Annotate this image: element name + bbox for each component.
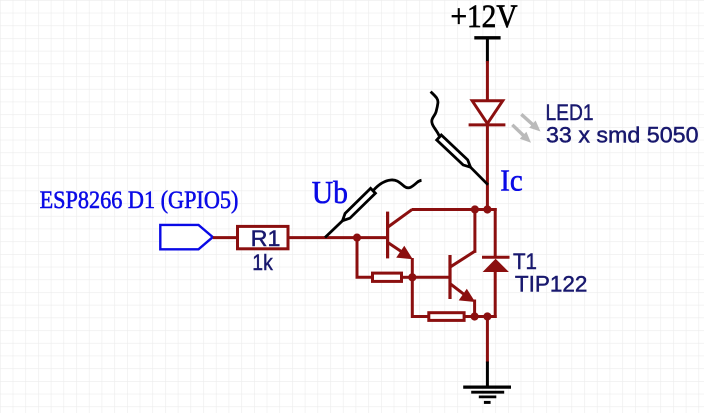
resistor Ra (internal) [373,273,402,281]
transistor Q2 (Darlington output) [450,251,475,302]
wire Q1 base branch down to Ra [357,238,372,278]
transistor Q1 (Darlington input) [388,210,413,260]
svg-text:33 x smd 5050: 33 x smd 5050 [546,123,699,148]
wire Q1 emitter to Q2 base [412,276,448,279]
junction dot base node [353,234,361,242]
svg-text:+12V: +12V [451,0,518,35]
svg-text:Ic: Ic [500,163,523,198]
probe Ic [431,92,488,185]
junction dot Q1 emitter / Q2 base node [408,273,416,281]
svg-text:ESP8266 D1 (GPIO5): ESP8266 D1 (GPIO5) [40,187,239,214]
junction dot ground node [483,312,491,320]
wire Rb to emitter rail [464,315,476,318]
diode D internal (flyback) [482,257,510,272]
wire Q2 emitter down [473,300,476,317]
LED light emission arrows [512,114,540,143]
svg-text:1k: 1k [252,250,273,275]
junction dot collector node A [471,205,479,213]
svg-text:Ub: Ub [312,174,348,210]
junction dot Q2 emitter on bottom rail [471,312,479,320]
wire LED cathode to collector node [486,126,489,210]
wire Q1 emitter down [411,258,414,277]
connector flag ESP8266 output port [160,225,213,249]
resistor R1 [238,226,289,248]
wire Q2 collector up to rail [473,210,476,253]
probe Ub [325,180,422,238]
wire base Q1 from R1 [289,236,387,239]
wire collector top rail [412,208,497,211]
power +12V rail bar [474,38,500,63]
wire to ground [486,317,489,363]
wire +12V to LED anode [486,61,489,101]
wire diode anode to bottom rail [494,271,497,318]
svg-text:LED1: LED1 [546,100,594,125]
svg-text:TIP122: TIP122 [515,272,588,297]
wire Q2 base branch down to Rb [412,277,428,316]
svg-text:T1: T1 [513,249,537,274]
junction dot main wire on rail [483,205,491,213]
resistor Rb (internal) [429,313,464,321]
wire flag to R1 [213,236,237,239]
svg-text:R1: R1 [251,226,281,251]
LED LED1 symbol [469,101,506,125]
wire Ra to Q1 emitter node [403,276,413,279]
wire diode branch from rail [494,208,497,258]
ground symbol [463,362,511,403]
bottom emitter rail [475,315,497,318]
